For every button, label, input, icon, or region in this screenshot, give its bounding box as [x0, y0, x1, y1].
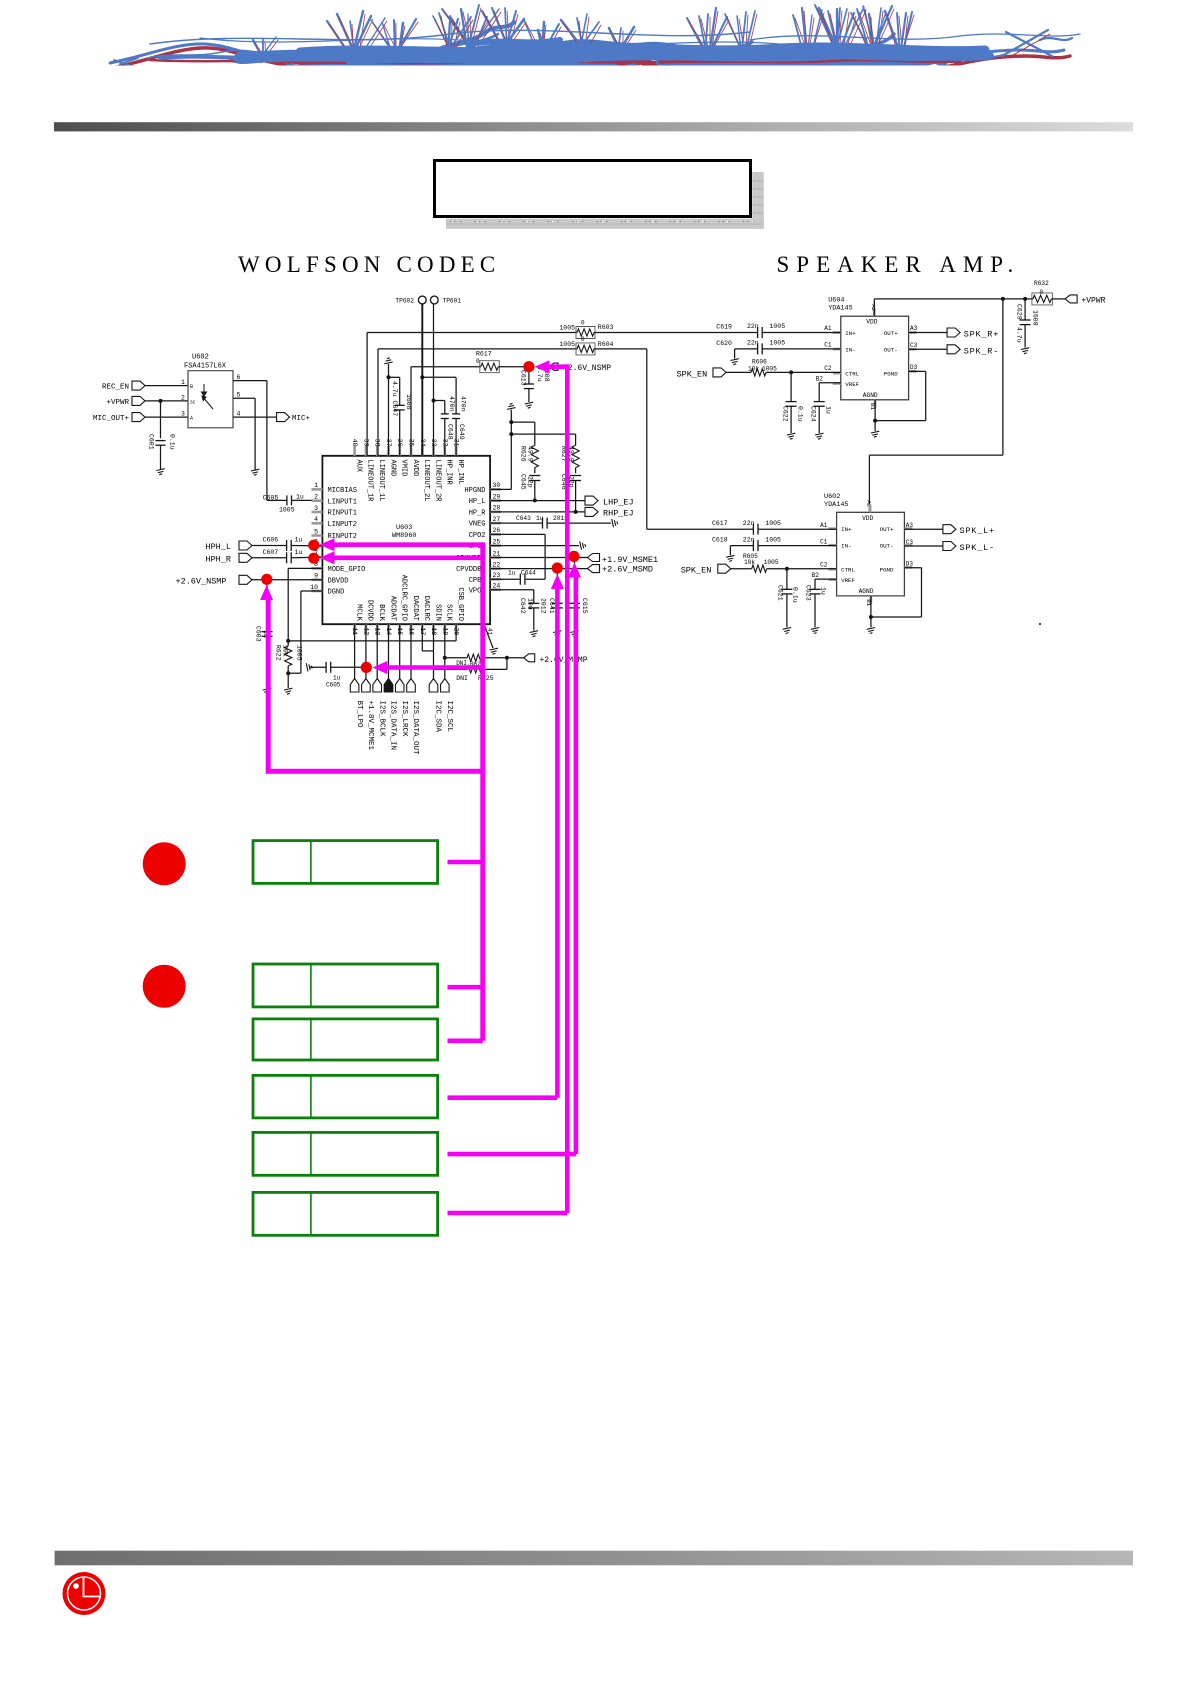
- svg-text:MIC_OUT+: MIC_OUT+: [93, 415, 130, 423]
- wire pin34 junction to HP_INL riser: [422, 376, 456, 378]
- svg-text:C1: C1: [824, 342, 832, 349]
- capacitor C649 470n: [455, 377, 457, 414]
- svg-text:C643: C643: [516, 515, 531, 522]
- svg-text:R622: R622: [274, 645, 281, 661]
- node dot LINPUT3: [308, 540, 319, 551]
- svg-text:U604: U604: [828, 297, 844, 305]
- capacitor C615 (under highlight): [574, 558, 576, 604]
- test point TP602: [421, 377, 423, 456]
- svg-text:ADCLRC_GPIO: ADCLRC_GPIO: [400, 575, 408, 621]
- svg-text:10u: 10u: [526, 598, 533, 610]
- wire U602 pin6 to C605: [233, 380, 267, 382]
- svg-text:C618: C618: [712, 537, 728, 544]
- callout table box 3: [253, 1019, 438, 1060]
- svg-text:1005: 1005: [559, 341, 575, 348]
- svg-text:1005: 1005: [279, 506, 295, 513]
- highlight wire: vertical bus C (to box5): [568, 563, 581, 578]
- highlight wire: vertical bus A (to box4): [551, 574, 564, 589]
- svg-text:C3: C3: [906, 539, 914, 546]
- svg-text:+2.6V_MSMP: +2.6V_MSMP: [540, 656, 588, 665]
- svg-text:VMID: VMID: [400, 460, 408, 477]
- svg-text:MICBIAS: MICBIAS: [328, 487, 357, 495]
- svg-text:C615: C615: [581, 598, 588, 614]
- resistor R622 10k 1005: [285, 646, 292, 666]
- resistor R625 (DNI): [434, 668, 468, 670]
- svg-text:CSB_GPIO: CSB_GPIO: [456, 587, 464, 621]
- svg-text:5: 5: [237, 392, 241, 399]
- svg-text:R604: R604: [598, 341, 614, 348]
- highlight wire: top +2.6V_NSMP arrow: [535, 360, 550, 373]
- svg-text:SCLK: SCLK: [445, 604, 453, 622]
- svg-text:0: 0: [476, 358, 480, 365]
- svg-text:C619: C619: [716, 324, 732, 331]
- svg-text:DNI: DNI: [456, 675, 468, 682]
- svg-text:A3: A3: [910, 325, 918, 332]
- capacitor C641 (under highlight): [556, 569, 558, 604]
- wire R622 to CSB pin20: [288, 640, 456, 642]
- capacitor C617 22n 1005 + IN+ wire lower: [750, 528, 753, 530]
- svg-text:C641: C641: [548, 598, 555, 614]
- node dot DCVDD: [361, 662, 372, 673]
- connector SPK_R+: [909, 332, 948, 334]
- svg-text:R626: R626: [519, 446, 526, 462]
- U603 thermal pad pin 41: [484, 624, 493, 648]
- svg-text:30: 30: [493, 482, 501, 489]
- svg-text:B2: B2: [816, 376, 824, 383]
- capacitor C605 1u: [267, 499, 287, 501]
- svg-text:0: 0: [581, 336, 585, 343]
- svg-text:C623: C623: [804, 585, 811, 601]
- svg-text:R617: R617: [476, 350, 492, 357]
- svg-text:LINEOUT_1R: LINEOUT_1R: [366, 460, 374, 503]
- capacitor C624 1u + VREF wire: [819, 382, 841, 384]
- node dot +1.9V_MSME1: [568, 551, 579, 562]
- svg-text:B2: B2: [812, 572, 820, 579]
- resistor R617 0: [481, 363, 499, 370]
- svg-text:OUT-: OUT-: [880, 543, 894, 550]
- svg-text:REC_EN: REC_EN: [102, 384, 129, 392]
- wire AGND pin37 to ground: [388, 364, 390, 456]
- svg-text:C648: C648: [446, 424, 453, 440]
- svg-text:1005: 1005: [762, 365, 777, 372]
- svg-text:0: 0: [581, 320, 585, 327]
- svg-text:HP_INR: HP_INR: [445, 460, 453, 486]
- capacitor C618 22n 1005 + IN- wire lower: [730, 545, 753, 547]
- svg-text:FSA4157L6X: FSA4157L6X: [184, 363, 227, 371]
- svg-text:1u: 1u: [333, 675, 341, 682]
- node dot +2.6V_NSMP left: [261, 574, 272, 585]
- test point TP601: [433, 304, 435, 456]
- highlight wire: vertical bus B (to box6): [565, 364, 570, 1213]
- highlight wire: box2 stub: [448, 985, 483, 990]
- svg-text:4.7u C647: 4.7u C647: [391, 381, 398, 416]
- svg-text:C3: C3: [910, 342, 918, 349]
- svg-text:MIC+: MIC+: [292, 415, 311, 423]
- svg-text:DGND: DGND: [328, 589, 345, 597]
- wire LINEOUT_1L to R604: [377, 349, 379, 456]
- svg-text:1005: 1005: [559, 325, 575, 332]
- svg-text:C642: C642: [519, 598, 526, 614]
- svg-text:2: 2: [181, 395, 185, 402]
- top gradient bar: [54, 122, 1133, 131]
- svg-text:0.1u: 0.1u: [797, 406, 804, 422]
- highlight wire: bottom loop: [266, 769, 485, 774]
- page area mask over artwork: [0, 66, 1190, 122]
- capacitor C642 10u 2012: [490, 589, 534, 591]
- capacitor C620 22n 1005 + IN- wire: [735, 348, 758, 350]
- svg-text:I2C_SDA: I2C_SDA: [434, 701, 442, 733]
- svg-text:5: 5: [314, 528, 318, 535]
- svg-text:1u: 1u: [295, 549, 303, 556]
- svg-text:HPH_R: HPH_R: [205, 555, 231, 565]
- callout table box 5: [253, 1132, 438, 1175]
- svg-text:10k: 10k: [748, 365, 759, 372]
- U603 top pins: [353, 446, 356, 456]
- svg-text:LINEOUT_2L: LINEOUT_2L: [422, 460, 430, 502]
- capacitor C608 1u + ground (MCLK row): [306, 663, 312, 671]
- svg-text:AGND: AGND: [859, 588, 874, 595]
- svg-text:B: B: [190, 384, 193, 390]
- svg-text:I2S_BCLK: I2S_BCLK: [377, 701, 385, 738]
- svg-text:1u: 1u: [296, 493, 304, 500]
- svg-text:28: 28: [493, 505, 501, 512]
- svg-text:MCLK: MCLK: [354, 604, 362, 622]
- svg-text:C644: C644: [521, 570, 536, 577]
- svg-text:22n: 22n: [747, 340, 759, 347]
- svg-text:29: 29: [493, 493, 501, 500]
- svg-text:CPO2: CPO2: [469, 532, 486, 540]
- svg-text:ADCDAT: ADCDAT: [388, 596, 396, 621]
- title box shadow strips: [752, 172, 764, 229]
- svg-text:0.1u: 0.1u: [791, 587, 798, 603]
- wire R604 to C617 (long route): [594, 348, 647, 350]
- wire AVDD pin35 to R617: [410, 367, 412, 456]
- svg-text:BCLK: BCLK: [377, 604, 385, 622]
- svg-text:C605: C605: [263, 494, 279, 501]
- svg-text:VDD: VDD: [866, 319, 877, 326]
- svg-text:C629: C629: [1015, 304, 1022, 320]
- svg-text:WOLFSON CODEC: WOLFSON CODEC: [238, 252, 500, 277]
- svg-text:SPK_EN: SPK_EN: [677, 369, 708, 379]
- svg-text:OUT-: OUT-: [884, 346, 898, 353]
- op-amp U603 WM8960 codec IC body: [322, 456, 490, 624]
- svg-text:IN+: IN+: [841, 526, 852, 533]
- resistor R627 49.9 + capacitor C646 22p branch: [511, 433, 575, 435]
- wire DGND pin10 loop: [301, 590, 323, 592]
- capacitor C622 0.1u: [790, 372, 792, 401]
- svg-text:C605: C605: [326, 682, 341, 689]
- capacitor C643 1u 2012: [490, 522, 542, 524]
- svg-text:1u: 1u: [536, 515, 544, 522]
- svg-text:4: 4: [314, 516, 318, 523]
- svg-text:21: 21: [493, 550, 501, 557]
- wire AGND to ground upper: [874, 400, 876, 431]
- LG logo: [63, 1572, 106, 1615]
- svg-text:SPK_R+: SPK_R+: [964, 330, 999, 340]
- svg-text:+2.6V_MSMD: +2.6V_MSMD: [602, 565, 653, 575]
- svg-text:RINPUT1: RINPUT1: [328, 510, 357, 518]
- svg-text:C649: C649: [458, 424, 465, 440]
- wire HPGND pin30 riser to ground: [490, 488, 511, 490]
- svg-text:+2.6V_NSMP: +2.6V_NSMP: [563, 364, 611, 373]
- resistor R604 0 1005: [577, 345, 594, 352]
- svg-text:AGND: AGND: [388, 460, 396, 477]
- svg-text:6: 6: [237, 374, 241, 381]
- svg-text:BT_LPO: BT_LPO: [355, 701, 363, 729]
- svg-text:22n: 22n: [743, 536, 755, 543]
- bottom pin wires to connectors: [354, 624, 356, 678]
- node dot +2.6V_MSMD: [552, 562, 563, 573]
- svg-text:C622: C622: [782, 406, 789, 422]
- title box: [435, 161, 751, 217]
- connector LHP_EJ: [490, 500, 585, 502]
- svg-text:C617: C617: [712, 520, 728, 527]
- wire AGND to ground lower: [870, 596, 872, 627]
- svg-text:PGND: PGND: [880, 567, 894, 574]
- highlight wire: right loop vertical: [480, 542, 485, 1040]
- svg-text:C1: C1: [820, 538, 828, 545]
- svg-text:470n: 470n: [460, 396, 467, 412]
- U603 left pins: [312, 488, 323, 491]
- svg-text:SPK_EN: SPK_EN: [681, 566, 712, 576]
- svg-text:+VPWR: +VPWR: [106, 399, 129, 407]
- svg-text:41: 41: [486, 628, 493, 636]
- callout table box 4: [253, 1075, 438, 1118]
- U603 right pins: [490, 488, 501, 491]
- svg-text:C624: C624: [810, 406, 817, 422]
- svg-text:+VPWR: +VPWR: [1081, 296, 1105, 305]
- svg-text:C2: C2: [824, 365, 832, 372]
- svg-text:C645: C645: [519, 474, 526, 490]
- svg-text:B1: B1: [865, 599, 872, 606]
- svg-text:I2S_DATA_OUT: I2S_DATA_OUT: [411, 701, 419, 756]
- svg-text:26: 26: [493, 527, 501, 534]
- resistor R603 0 1005: [577, 329, 594, 336]
- svg-text:VNEG: VNEG: [469, 521, 486, 529]
- svg-text:22n: 22n: [747, 323, 759, 330]
- svg-text:MODE_GPIO: MODE_GPIO: [328, 566, 366, 574]
- capacitor C623 1u + VREF wire lower: [815, 578, 837, 580]
- svg-text:DACLRC: DACLRC: [422, 596, 430, 621]
- callout table box 2: [253, 964, 438, 1007]
- svg-text:10: 10: [310, 584, 318, 591]
- wire CPO1 pin25 to ground: [490, 545, 579, 547]
- svg-text:40: 40: [351, 439, 358, 447]
- svg-text:B1: B1: [869, 403, 876, 410]
- wire R622 rail pin8: [288, 567, 322, 569]
- connector SPK_L+: [904, 528, 943, 530]
- svg-text:D3: D3: [906, 561, 914, 568]
- svg-text:C621: C621: [776, 585, 783, 601]
- svg-text:IN-: IN-: [845, 346, 855, 353]
- callout table box 1: [253, 841, 438, 884]
- svg-text:2012: 2012: [540, 598, 547, 614]
- node dot +2.6V_NSMP top: [523, 361, 534, 372]
- svg-text:10k: 10k: [282, 645, 289, 657]
- svg-text:TP602: TP602: [395, 298, 414, 305]
- svg-text:R632: R632: [1034, 280, 1049, 287]
- svg-text:HP_INL: HP_INL: [456, 460, 464, 485]
- wire LINEOUT_1R to R603: [366, 333, 368, 456]
- svg-text:R606: R606: [752, 358, 767, 365]
- svg-text:C620: C620: [716, 340, 732, 347]
- node +2.6V_NSMP (top): [549, 363, 558, 370]
- svg-text:WM8960: WM8960: [392, 532, 416, 540]
- svg-text:AGND: AGND: [863, 392, 878, 399]
- svg-text:3: 3: [181, 411, 185, 418]
- callout table box 6: [253, 1192, 438, 1235]
- connector +VPWR: [1065, 295, 1077, 303]
- svg-text:22p: 22p: [527, 476, 534, 488]
- svg-text:A1: A1: [820, 522, 828, 529]
- wire CPO2 pin26 to C644: [490, 533, 545, 535]
- callout marker circle 1: [143, 842, 186, 885]
- connector RHP_EJ: [490, 511, 585, 513]
- resistor R632 0: [1025, 298, 1033, 300]
- svg-text:SPK_L+: SPK_L+: [960, 526, 995, 536]
- svg-text:U602: U602: [824, 493, 840, 501]
- capacitor C613 4.7u 1608: [528, 367, 530, 384]
- svg-text:1005: 1005: [770, 323, 786, 330]
- svg-text:I2S_DATA_IN: I2S_DATA_IN: [389, 701, 397, 751]
- capacitor C619 22n 1005 + IN+ wire: [756, 332, 759, 334]
- svg-text:1u: 1u: [295, 537, 303, 544]
- connector SPK_L-: [904, 545, 943, 547]
- capacitor C621 0.1u lower: [786, 569, 788, 590]
- svg-text:39: 39: [362, 439, 369, 447]
- svg-text:1005: 1005: [770, 340, 786, 347]
- bottom gradient bar: [55, 1551, 1133, 1566]
- connector MIC+: [233, 416, 277, 418]
- highlight wire: RINPUT3 arrow row: [320, 551, 335, 564]
- svg-text:10k: 10k: [744, 559, 755, 566]
- svg-text:0: 0: [1040, 289, 1044, 296]
- svg-text:C606: C606: [263, 537, 279, 544]
- capacitor C647 4.7u 1608: [399, 410, 401, 456]
- U603 bottom pins: [353, 624, 356, 634]
- highlight wire: left loop vertical + arrow: [260, 585, 273, 600]
- svg-text:I2C_SCL: I2C_SCL: [445, 701, 453, 733]
- decorative header artwork: [110, 5, 1080, 79]
- capacitor C648 470n: [432, 399, 436, 403]
- svg-text:HPGND: HPGND: [464, 487, 485, 495]
- svg-text:D3: D3: [910, 364, 918, 371]
- svg-text:VDD: VDD: [862, 515, 873, 522]
- svg-text:+2.6V_NSMP: +2.6V_NSMP: [176, 576, 227, 586]
- svg-text:DCVDD: DCVDD: [366, 600, 374, 621]
- svg-text:AUX: AUX: [354, 460, 362, 473]
- highlight wire: LINPUT3 arrow row: [320, 538, 335, 551]
- svg-text:LINPUT1: LINPUT1: [328, 498, 357, 506]
- callout marker circle 2: [143, 965, 186, 1008]
- svg-text:SC: SC: [190, 400, 196, 406]
- svg-text:C613: C613: [520, 370, 527, 386]
- svg-text:23: 23: [493, 572, 501, 579]
- svg-text:HP_L: HP_L: [469, 498, 486, 506]
- svg-text:LINEOUT_2R: LINEOUT_2R: [433, 460, 441, 503]
- resistor R624 (DNI): [443, 656, 447, 660]
- svg-text:1: 1: [314, 482, 318, 489]
- svg-text:AVDD: AVDD: [411, 460, 419, 477]
- svg-text:0.1u: 0.1u: [169, 434, 176, 450]
- svg-text:LINEOUT_1L: LINEOUT_1L: [377, 460, 385, 502]
- svg-text:+1.9V_MSME1: +1.9V_MSME1: [602, 555, 658, 565]
- svg-text:2: 2: [314, 494, 318, 501]
- svg-text:1: 1: [181, 379, 185, 386]
- svg-text:+1.8V_MCME1: +1.8V_MCME1: [366, 701, 374, 751]
- capacitor C601 0.1u: [159, 399, 163, 403]
- svg-text:27: 27: [493, 516, 501, 523]
- svg-text:38: 38: [374, 439, 381, 447]
- svg-text:24: 24: [493, 583, 501, 590]
- svg-text:1u: 1u: [819, 587, 826, 595]
- svg-text:RHP_EJ: RHP_EJ: [603, 509, 634, 519]
- svg-text:YDA145: YDA145: [824, 501, 848, 509]
- wire U602 pin5 to ground: [233, 397, 255, 399]
- wire DACLRC pin17: [421, 624, 423, 651]
- svg-text:PGND: PGND: [884, 370, 898, 377]
- svg-text:4.7u: 4.7u: [1015, 327, 1022, 343]
- node dot RINPUT3: [308, 553, 319, 564]
- wire PGND loop lower: [904, 567, 921, 569]
- svg-text:SPK_R-: SPK_R-: [964, 346, 999, 356]
- resistor R626 49.9 + capacitor C645 22p branch: [511, 421, 535, 423]
- connector +2.6V_MSMD: [490, 568, 587, 570]
- svg-text:HP_R: HP_R: [469, 510, 487, 518]
- svg-text:I2S_LRCK: I2S_LRCK: [400, 701, 408, 738]
- svg-text:1u: 1u: [825, 406, 832, 414]
- op-amp U602 YDA145 body: [837, 512, 905, 596]
- op-amp U604 YDA145 body: [841, 316, 909, 400]
- svg-text:1005: 1005: [764, 559, 779, 566]
- wire +VPWR rail to lower amp VDD: [1002, 299, 1004, 455]
- svg-text:HPH_L: HPH_L: [205, 542, 231, 552]
- svg-text:CTRL: CTRL: [841, 567, 855, 574]
- svg-text:VREF: VREF: [841, 577, 855, 584]
- wire PGND loop upper: [909, 370, 926, 372]
- svg-text:1608: 1608: [1031, 310, 1038, 326]
- svg-text:C2: C2: [820, 562, 828, 569]
- svg-text:DACDAT: DACDAT: [411, 596, 419, 621]
- svg-text:OUT+: OUT+: [884, 330, 898, 337]
- highlight wire: DCVDD arrow row: [372, 661, 387, 674]
- svg-text:25: 25: [493, 538, 501, 545]
- svg-text:A1: A1: [824, 325, 832, 332]
- svg-text:4: 4: [237, 411, 241, 418]
- svg-text:R603: R603: [598, 324, 614, 331]
- svg-text:LHP_EJ: LHP_EJ: [603, 497, 634, 507]
- svg-text:22: 22: [493, 561, 501, 568]
- svg-text:YDA145: YDA145: [828, 305, 852, 313]
- svg-text:CTRL: CTRL: [845, 370, 859, 377]
- svg-text:DBVDD: DBVDD: [328, 577, 349, 585]
- svg-text:470n: 470n: [448, 396, 455, 412]
- connector SPK_R-: [909, 348, 948, 350]
- svg-text:U602: U602: [192, 353, 209, 361]
- svg-text:SDIN: SDIN: [433, 604, 441, 621]
- svg-text:1005: 1005: [765, 536, 781, 543]
- svg-text:A: A: [190, 416, 193, 422]
- bottom connectors: [350, 679, 359, 693]
- svg-text:1005: 1005: [765, 520, 781, 527]
- highlight wire: box1 stub: [448, 860, 483, 865]
- svg-text:49.9: 49.9: [527, 446, 534, 462]
- stray dot: [1039, 623, 1041, 625]
- capacitor C603 1u: [266, 580, 268, 630]
- wire +VPWR rail top: [873, 299, 875, 316]
- svg-text:C603: C603: [255, 626, 262, 642]
- capacitor C629 4.7u 1608: [1024, 299, 1026, 320]
